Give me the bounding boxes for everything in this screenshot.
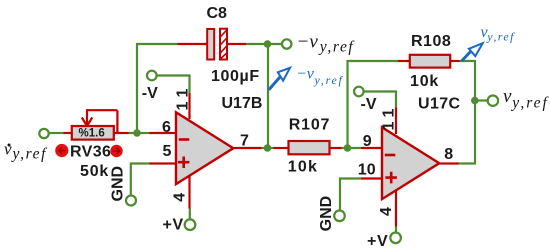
svg-text:U17C: U17C: [418, 96, 461, 113]
svg-text:6: 6: [162, 119, 171, 136]
terminal -V U17C: [354, 87, 364, 97]
terminal input left: [39, 129, 48, 138]
node E junction: [471, 97, 479, 105]
svg-text:GND: GND: [318, 196, 335, 232]
svg-text:%1.6: %1.6: [79, 128, 105, 140]
svg-text:4: 4: [378, 207, 395, 216]
wire R107 to node D: [342, 147, 362, 149]
U17B plus mark: [178, 157, 190, 169]
label v-dot y,ref input: [4, 140, 48, 163]
svg-text:GND: GND: [109, 166, 126, 202]
wire output U17C to right vertical: [459, 162, 477, 164]
wire pot to node A: [129, 132, 139, 134]
terminal GND U17B: [126, 196, 136, 206]
pin 8 output lead: [439, 162, 458, 164]
RV36 wiper arrow: [86, 110, 117, 132]
RV36 wiper arrowhead: [82, 118, 92, 127]
node D junction: [344, 144, 352, 152]
label -vy,ref blue: [296, 66, 344, 88]
resistor R107 lead right: [330, 147, 342, 149]
wire GND to pin 10: [340, 179, 361, 210]
wire -V to pin 11: [157, 76, 189, 94]
svg-text:100µF: 100µF: [211, 68, 260, 85]
terminal +V U17C: [390, 233, 401, 244]
pin 7 output lead: [233, 147, 261, 149]
svg-text:RV36: RV36: [70, 144, 111, 161]
svg-text:R107: R107: [289, 117, 330, 134]
wire R108 to right vertical: [460, 61, 476, 164]
terminal GND U17C: [334, 211, 345, 222]
label -vy,ref top black: [297, 32, 356, 56]
pin 9 lead: [361, 147, 383, 149]
terminal vy,ref right: [488, 96, 498, 106]
svg-text:R108: R108: [411, 33, 451, 50]
resistor R108 body: [410, 55, 450, 68]
op-amp U17B: [176, 112, 233, 184]
resistor R107 body: [289, 141, 330, 154]
wire pin4 to +V U17C: [395, 227, 397, 233]
capacitor C8 left plate: [207, 29, 214, 60]
wire node B down to output node: [267, 44, 269, 148]
wire input to RV36: [50, 132, 64, 134]
capacitor C8 lead right: [227, 43, 246, 45]
wire GND to pin 5: [131, 164, 150, 195]
svg-text:y,ref: y,ref: [11, 146, 49, 163]
wire pin4 to +V: [189, 209, 191, 219]
node C junction: [264, 144, 272, 152]
U17B minus mark: [179, 138, 190, 141]
svg-text:-V: -V: [142, 85, 158, 102]
pin 6 lead: [150, 132, 177, 134]
svg-text:−v: −v: [297, 32, 319, 53]
svg-text:10k: 10k: [288, 158, 318, 175]
terminal -V U17B: [147, 71, 157, 81]
svg-text:10k: 10k: [410, 73, 439, 90]
wire node D up to R108: [348, 61, 399, 148]
svg-text:−v: −v: [296, 66, 315, 83]
svg-text:9: 9: [363, 133, 372, 150]
potentiometer RV36 body: [72, 126, 114, 140]
op-amp U17C: [382, 127, 439, 199]
resistor R108 lead right: [450, 60, 460, 62]
label vy,ref blue: [481, 24, 516, 44]
svg-text:y,ref: y,ref: [314, 73, 344, 87]
svg-text:y,ref: y,ref: [510, 95, 549, 112]
red marker dot left: [55, 144, 68, 157]
pin 4 lead U17B: [188, 176, 190, 209]
lead RV36 left: [64, 132, 73, 134]
svg-text:+V: +V: [163, 216, 184, 233]
pin 5 lead: [150, 162, 177, 164]
node A junction: [133, 129, 141, 137]
capacitor C8 lead left: [178, 43, 208, 45]
pin 11 lead: [188, 93, 190, 119]
lead RV36 right: [114, 132, 129, 134]
svg-text:y,ref: y,ref: [486, 30, 515, 44]
svg-text:10: 10: [358, 162, 376, 179]
wire node A to pin6: [137, 132, 150, 134]
svg-text:8: 8: [444, 146, 453, 163]
wire node A up to C8: [137, 44, 178, 133]
U17C minus mark: [385, 154, 396, 157]
label vy,ref right black: [503, 86, 550, 112]
svg-text:50k: 50k: [80, 163, 109, 180]
svg-text:v: v: [4, 140, 12, 159]
voltage probe arrow -vy,ref: [269, 68, 290, 90]
wire node E to output terminal: [475, 99, 487, 101]
wire -V to pin 11 U17C: [364, 92, 396, 108]
svg-text:y,ref: y,ref: [318, 39, 356, 56]
pin 10 lead: [361, 177, 383, 179]
terminal -vy,ref top: [282, 39, 291, 48]
U17C plus mark: [385, 172, 397, 184]
svg-text:+V: +V: [367, 233, 388, 249]
svg-text:4: 4: [171, 193, 188, 202]
red marker dot right: [110, 145, 122, 157]
pin 11 lead U17C: [395, 108, 397, 135]
node B junction: [264, 40, 272, 48]
wire C8 to node B: [246, 43, 281, 45]
svg-text:C8: C8: [207, 5, 228, 22]
pin 4 lead U17C: [395, 191, 397, 227]
svg-text:v: v: [503, 86, 512, 107]
voltage probe arrow vy,ref: [462, 43, 483, 61]
resistor R108 lead left: [398, 60, 410, 62]
svg-text:-V: -V: [361, 96, 377, 113]
resistor R107 lead left: [274, 147, 289, 149]
svg-text:U17B: U17B: [222, 95, 263, 112]
svg-text:5: 5: [163, 143, 172, 160]
terminal +V U17B: [185, 219, 196, 230]
wire output node C: [262, 147, 274, 149]
capacitor C8 right plate: [220, 29, 227, 60]
